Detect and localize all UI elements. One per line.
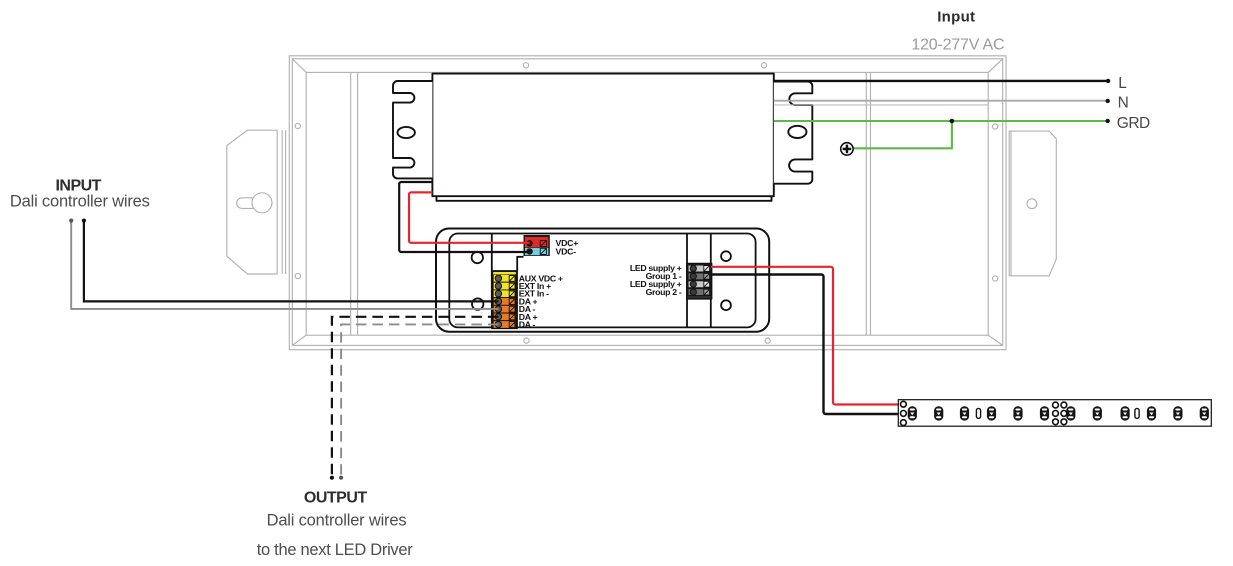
junction on GRD wire bbox=[950, 119, 955, 124]
LED driver PSU body bbox=[432, 74, 773, 197]
LED supply wire black bbox=[711, 274, 899, 414]
svg-text:Input: Input bbox=[937, 8, 975, 25]
strip resistor 2 bbox=[1135, 408, 1139, 418]
svg-text:L: L bbox=[1118, 75, 1127, 92]
enclosure outer border (double line) bbox=[289, 56, 1006, 350]
left mounting bracket bbox=[227, 130, 286, 274]
controller screw hole top-left bbox=[472, 252, 483, 263]
hole in right bracket bbox=[1027, 199, 1037, 209]
screws and hatches of DALI block rows bbox=[495, 275, 501, 328]
svg-text:to the next LED Driver: to the next LED Driver bbox=[257, 541, 414, 559]
wire N (neutral, gray) bbox=[774, 100, 1108, 102]
svg-text:OUTPUT: OUTPUT bbox=[304, 490, 368, 507]
frame screw left-bottom bbox=[295, 273, 300, 278]
LED output terminal block bbox=[687, 264, 712, 299]
LED supply wire red bbox=[711, 267, 899, 405]
terminal DA- second bbox=[493, 321, 516, 329]
PSU left mounting flange bbox=[393, 81, 432, 178]
frame screw top-right bbox=[761, 63, 766, 68]
wire VDC- (black, PSU to controller) bbox=[399, 182, 529, 252]
controller screw hole bottom-left bbox=[472, 298, 483, 309]
svg-text:N: N bbox=[1118, 94, 1129, 111]
keyhole in left bracket bbox=[252, 193, 272, 213]
svg-text:DA -: DA - bbox=[519, 320, 536, 330]
terminal VDC+ (red) bbox=[525, 237, 548, 247]
interior divider left (double line) bbox=[350, 72, 352, 335]
controller screw hole bottom-right bbox=[721, 300, 731, 310]
svg-text:VDC-: VDC- bbox=[556, 246, 577, 256]
terminal LED supply+ G2 bbox=[688, 281, 710, 288]
node GRD bbox=[1106, 119, 1110, 123]
terminal DA- bbox=[493, 305, 516, 313]
node L bbox=[1106, 79, 1110, 83]
frame screw top-left bbox=[523, 63, 528, 68]
svg-text:120-277V AC: 120-277V AC bbox=[911, 36, 1004, 53]
LED strip mid solder pads cluster bbox=[1053, 402, 1067, 425]
corner bevel top-left bbox=[292, 59, 306, 73]
LED strip input pads bbox=[901, 401, 907, 425]
DALI output wire gray (dashed) bbox=[341, 324, 498, 474]
WIRES-START bbox=[69, 79, 1110, 480]
frame screw bottom-left bbox=[524, 338, 529, 343]
frame screw bottom-right bbox=[765, 338, 770, 343]
output bay wall right bbox=[710, 234, 712, 328]
STRIP-START bbox=[898, 400, 1211, 427]
terminal LED supply+ G1 bbox=[688, 265, 710, 272]
wire GRD (green) bbox=[774, 120, 1108, 122]
terminal Group1- bbox=[688, 273, 710, 280]
PSU base lip bbox=[437, 196, 772, 201]
svg-text:Dali controller wires: Dali controller wires bbox=[10, 193, 150, 211]
right mounting bracket bbox=[1009, 131, 1057, 276]
corner bevel bottom-right bbox=[988, 335, 1003, 345]
VDC terminal block bbox=[524, 235, 550, 256]
terminal DA+ bbox=[493, 298, 516, 306]
enclosure inner edge bbox=[306, 72, 988, 335]
frame screw right-top bbox=[993, 124, 998, 129]
node output black bbox=[330, 476, 334, 480]
frame screw left-top bbox=[295, 123, 300, 128]
terminal bay step outline bbox=[517, 257, 523, 271]
DALI input wire gray bbox=[71, 222, 498, 309]
interior divider right (double line) bbox=[865, 72, 867, 335]
PSU right mounting flange bbox=[774, 82, 813, 184]
frame screw right-bottom bbox=[993, 276, 998, 281]
DALI input wire black bbox=[84, 222, 499, 302]
oval hole in left flange bbox=[398, 127, 415, 138]
terminal VDC- (blue) bbox=[525, 248, 548, 255]
DALI controller module outer case bbox=[436, 229, 769, 332]
PSU-START bbox=[393, 74, 812, 201]
node input gray bbox=[69, 219, 73, 223]
ground wire branch to chassis screw bbox=[854, 121, 952, 148]
terminal bay wall left bbox=[491, 234, 493, 328]
DALI input terminal block (yellow/orange) bbox=[492, 271, 517, 329]
corner bevel top-right bbox=[988, 59, 1003, 73]
output bay wall left bbox=[686, 234, 688, 328]
yellow strip top bbox=[493, 272, 516, 275]
LED strip body bbox=[898, 400, 1211, 427]
chassis ground screw symbol bbox=[841, 143, 853, 155]
terminal EXT In+ bbox=[493, 282, 516, 290]
ENCLOSURE-START bbox=[227, 56, 1057, 350]
interior seam line right section bbox=[774, 104, 988, 106]
terminal AUX VDC+ bbox=[493, 275, 516, 283]
svg-text:Group 2 -: Group 2 - bbox=[646, 287, 682, 297]
strip resistor 1 bbox=[976, 408, 980, 418]
svg-text:GRD: GRD bbox=[1117, 115, 1150, 132]
node N bbox=[1106, 99, 1110, 103]
DALI controller module inner cover bbox=[449, 234, 755, 328]
svg-text:Dali controller wires: Dali controller wires bbox=[267, 512, 407, 530]
wire VDC+ (red, PSU to controller) bbox=[409, 192, 530, 242]
corner bevel bottom-left bbox=[292, 335, 306, 345]
wire L (line, black) bbox=[774, 80, 1108, 82]
node input black bbox=[82, 219, 86, 223]
terminal Group2- bbox=[688, 289, 710, 296]
node output gray bbox=[339, 476, 343, 480]
DALI output wire black (dashed) bbox=[332, 317, 499, 475]
terminal EXT In- bbox=[493, 290, 516, 298]
oval hole in right flange bbox=[788, 126, 806, 138]
controller screw hole top-right bbox=[721, 251, 731, 261]
CONTROLLER-START bbox=[436, 229, 769, 332]
terminal DA+ second bbox=[493, 313, 516, 321]
